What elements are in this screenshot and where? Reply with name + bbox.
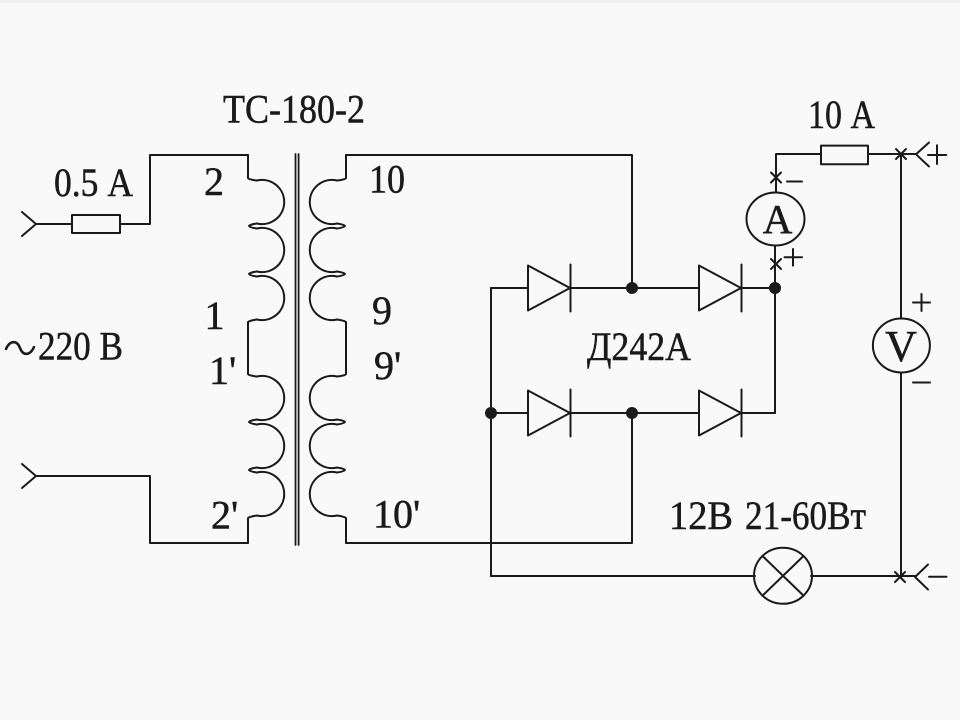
tilde (AC sign)	[6, 342, 34, 354]
terminal X3 (output plus)	[916, 143, 929, 167]
svg-text:1': 1'	[209, 348, 236, 393]
svg-text:2': 2'	[211, 493, 238, 538]
lamp HL1	[754, 548, 812, 604]
diode D3	[528, 390, 571, 437]
svg-text:220 В: 220 В	[38, 324, 123, 369]
svg-text:21-60Вт: 21-60Вт	[745, 493, 866, 538]
fuse F1	[72, 215, 120, 233]
wire lamp left lead	[491, 575, 755, 577]
wire bridge left vertical (minus rail)	[490, 288, 492, 576]
wire bridge right vertical (plus rail)	[774, 288, 776, 413]
transformer core	[296, 154, 299, 545]
node C (bridge lower left)	[486, 408, 496, 418]
wire	[36, 223, 72, 225]
scan edge shading	[0, 0, 960, 3]
svg-text:1: 1	[205, 293, 225, 338]
wire secondary top to bridge	[346, 155, 632, 288]
minus sign (ammeter)	[787, 181, 802, 183]
terminal X2 (AC input, lower)	[22, 464, 36, 488]
node B (bridge upper right)	[770, 283, 780, 293]
wire secondary bottom to bridge	[346, 413, 632, 543]
minus sign (voltmeter)	[913, 382, 930, 384]
plus sign (voltmeter)	[913, 294, 930, 311]
svg-text:9': 9'	[374, 343, 401, 388]
terminal X4 (output minus)	[915, 565, 928, 590]
node A (bridge upper center)	[627, 283, 637, 293]
wire lamp right lead	[811, 575, 916, 577]
node D (bridge lower center)	[627, 408, 637, 418]
wire upper bridge row	[491, 287, 775, 289]
plus sign (ammeter)	[785, 249, 803, 266]
diode D1	[528, 265, 571, 312]
contact mark x (ammeter plus)	[771, 259, 781, 269]
svg-text:10 А: 10 А	[808, 92, 875, 137]
diode D4	[699, 390, 742, 437]
terminal X1 (AC input, upper)	[22, 212, 36, 236]
svg-text:ТС-180-2: ТС-180-2	[223, 87, 365, 132]
wire ammeter bottom lead	[774, 247, 776, 289]
svg-text:10': 10'	[373, 492, 420, 537]
contact mark x (ammeter minus)	[771, 173, 781, 183]
wire	[120, 155, 248, 224]
wire voltmeter top lead	[900, 154, 902, 319]
svg-text:9: 9	[372, 288, 392, 333]
transformer T1 secondary winding	[310, 155, 346, 543]
wire voltmeter bottom lead	[900, 373, 902, 578]
contact mark x (output minus)	[895, 572, 905, 582]
svg-text:12В: 12В	[669, 493, 733, 538]
diode D2	[699, 265, 742, 312]
wire	[868, 153, 916, 155]
transformer T1 primary winding	[248, 155, 284, 543]
ammeter PA1	[747, 193, 805, 246]
svg-text:10: 10	[369, 157, 405, 202]
voltmeter PV1	[873, 319, 930, 373]
contact mark x (output plus)	[896, 149, 906, 159]
svg-text:V: V	[885, 322, 917, 371]
wire ammeter top lead	[776, 154, 821, 193]
plus sign (output)	[928, 145, 946, 164]
svg-text:2: 2	[204, 159, 224, 204]
fuse F2	[821, 146, 868, 165]
svg-text:0.5 А: 0.5 А	[54, 160, 133, 205]
wire lower bridge row	[491, 412, 775, 414]
svg-text:А: А	[763, 196, 793, 242]
minus sign (output)	[929, 576, 947, 578]
svg-text:Д242А: Д242А	[587, 324, 691, 369]
wire	[36, 476, 248, 543]
